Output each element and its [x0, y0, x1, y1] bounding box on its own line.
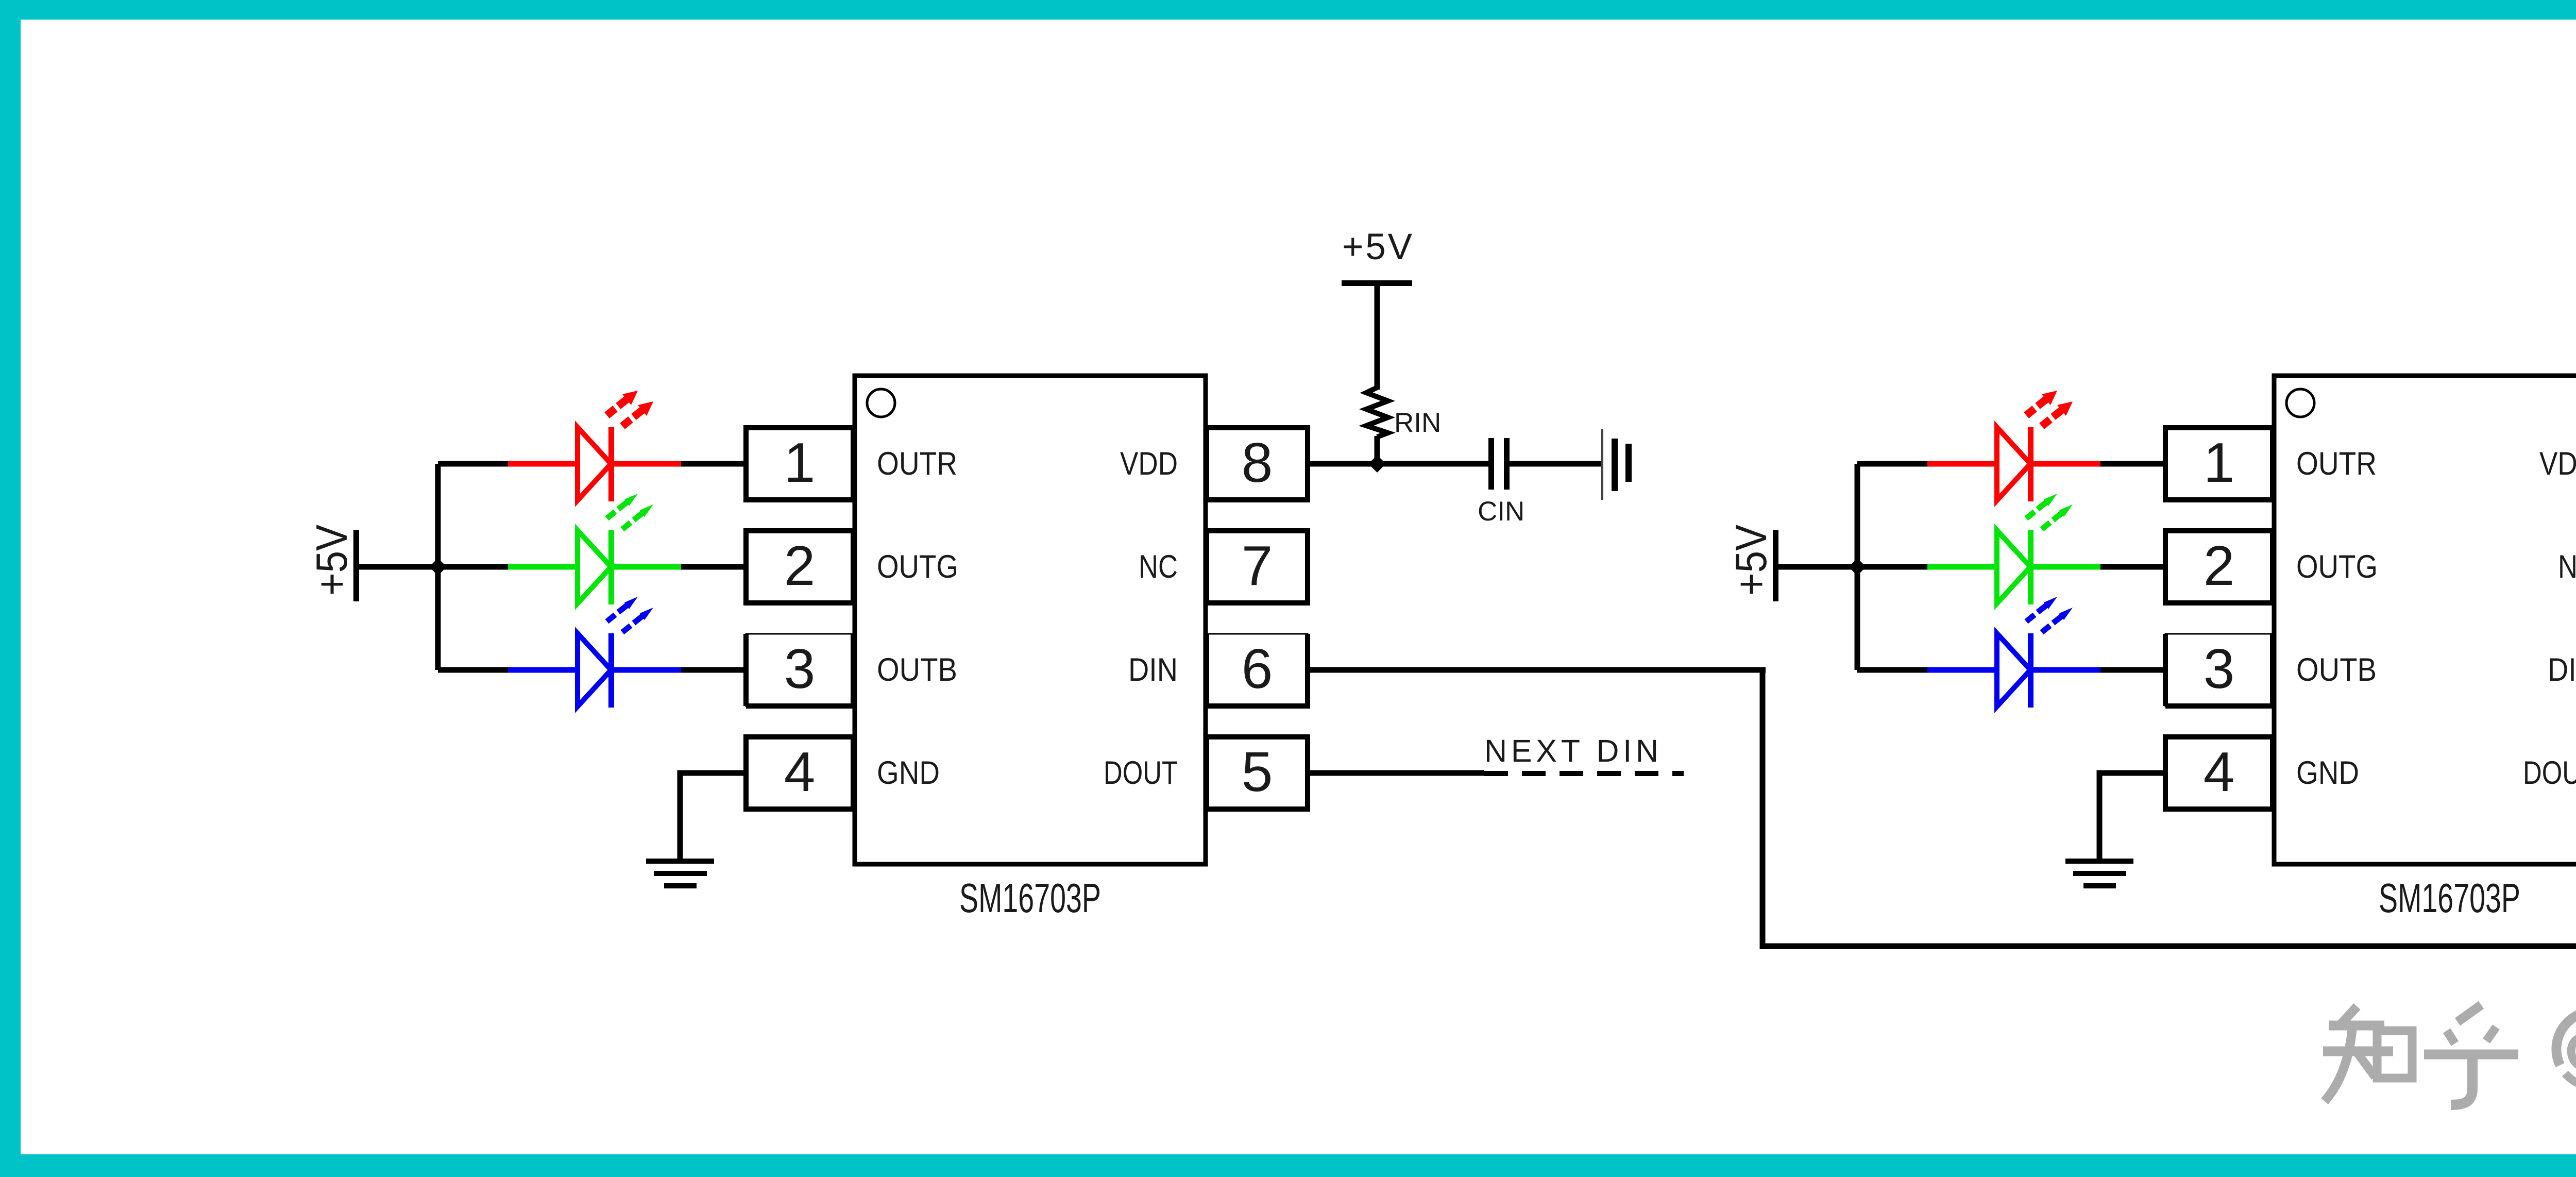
resistor RIN [1366, 388, 1388, 437]
wire anode stub (blue LED) [438, 667, 509, 673]
pin 2 box [2165, 531, 2273, 603]
pin 6 box [1207, 634, 1308, 706]
svg-text:CIN: CIN [1478, 496, 1524, 527]
svg-text:VDD: VDD [2539, 446, 2576, 482]
svg-text:OUTR: OUTR [877, 446, 957, 482]
svg-text:8: 8 [1242, 431, 1273, 494]
svg-text:+5V: +5V [1727, 525, 1776, 596]
svg-text:+5V: +5V [308, 525, 357, 596]
wire pin8 to CIN [1309, 461, 1489, 467]
svg-text:NC: NC [1139, 549, 1178, 585]
svg-text:SM16703P: SM16703P [2379, 875, 2520, 921]
wire bottom run (horizontal) [1760, 944, 2576, 949]
svg-text:GND: GND [2296, 755, 2359, 791]
IC U_U1 SM16703P body [855, 376, 1206, 864]
svg-text:VDD: VDD [1120, 446, 1178, 482]
pin 4 box [746, 737, 853, 809]
svg-text:OUTG: OUTG [2296, 549, 2378, 585]
svg-text:DOUT: DOUT [1104, 755, 1178, 791]
capacitor CIN [1488, 438, 1510, 490]
svg-text:RIN: RIN [1394, 408, 1441, 438]
wire cathode stub (blue LED) [2100, 667, 2167, 673]
wire cathode stub (red LED) [681, 461, 748, 467]
svg-text:DIN: DIN [2548, 652, 2576, 688]
wire anode stub (red LED) [438, 461, 509, 467]
wire +5V to LED anode node [1778, 564, 1860, 570]
svg-text:1: 1 [2204, 431, 2235, 494]
wire anode stub (green LED) [1857, 564, 1928, 570]
pin 7 box [1207, 531, 1308, 603]
watermark 知乎 @玩转嵌入式 [2323, 1004, 2576, 1105]
svg-text:4: 4 [784, 741, 816, 803]
ground (IC GND pin, U1) [646, 859, 714, 888]
wire cathode stub (red LED) [2100, 461, 2167, 467]
node VDD junction [1368, 455, 1386, 473]
pin 8 box [1207, 428, 1308, 500]
power +5V rail (U2 LED supply) [1727, 525, 1778, 601]
svg-text:2: 2 [784, 534, 816, 597]
power +5V rail (U1 LED supply) [308, 525, 359, 601]
power +5V (VDD supply, U1) [1342, 227, 1413, 286]
wire pin4 to ground [2099, 773, 2167, 861]
pin 4 box [2165, 737, 2273, 809]
wire LED anode bus (vertical) [435, 464, 441, 670]
wire cathode stub (blue LED) [681, 667, 748, 673]
LED D1 red [508, 391, 681, 501]
svg-text:SM16703P: SM16703P [959, 875, 1101, 921]
wire RIN to VDD node [1375, 436, 1380, 464]
wire anode stub (blue LED) [1857, 667, 1928, 673]
wire anode stub (green LED) [438, 564, 509, 570]
svg-text:6: 6 [1242, 637, 1273, 700]
svg-text:+5V: +5V [1342, 227, 1413, 267]
svg-text:4: 4 [2204, 741, 2235, 803]
ground (CIN return, U1) [1601, 429, 1632, 500]
node LED anode junction [429, 558, 447, 576]
svg-text:OUTR: OUTR [2296, 446, 2377, 482]
LED D1 red [1927, 391, 2100, 501]
pin 2 box [746, 531, 853, 603]
pin-1 indicator circle [2286, 389, 2314, 417]
pin 1 box [2165, 428, 2273, 500]
wire +5V to LED anode node [359, 564, 441, 570]
LED D3 blue [508, 597, 681, 708]
wire CIN to ground [1510, 461, 1602, 467]
IC U_U2 SM16703P body [2274, 376, 2576, 864]
svg-text:DOUT: DOUT [2523, 755, 2576, 791]
wire DIN drop (vertical) [1760, 667, 1766, 949]
LED D2 green [1927, 494, 2100, 604]
svg-text:DIN: DIN [1128, 652, 1178, 688]
svg-text:GND: GND [877, 755, 940, 791]
ground (IC GND pin, U2) [2065, 859, 2133, 888]
wire pin4 to ground [680, 773, 748, 861]
wire anode stub (red LED) [1857, 461, 1928, 467]
pin 1 box [746, 428, 853, 500]
wire U1 DOUT (pin5) stub [1309, 770, 1484, 776]
pin 3 box [746, 634, 853, 706]
net NEXT DIN (dashed wire) [1484, 771, 1684, 776]
wire +5V to RIN [1375, 283, 1380, 390]
svg-text:NC: NC [2558, 549, 2576, 585]
svg-text:1: 1 [784, 431, 816, 494]
svg-text:5: 5 [1242, 741, 1273, 803]
pin 3 box [2165, 634, 2273, 706]
node LED anode junction [1849, 558, 1866, 576]
pin-1 indicator circle [867, 389, 895, 417]
wire LED anode bus (vertical) [1855, 464, 1860, 670]
LED D2 green [508, 494, 681, 604]
svg-text:OUTB: OUTB [877, 652, 957, 688]
pin 5 box [1207, 737, 1308, 809]
svg-text:OUTB: OUTB [2296, 652, 2377, 688]
wire cathode stub (green LED) [681, 564, 748, 570]
wire cathode stub (green LED) [2100, 564, 2167, 570]
LED D3 blue [1927, 597, 2100, 708]
svg-text:OUTG: OUTG [877, 549, 958, 585]
svg-text:3: 3 [784, 637, 816, 700]
svg-text:7: 7 [1242, 534, 1273, 597]
svg-text:2: 2 [2204, 534, 2235, 597]
svg-text:3: 3 [2204, 637, 2235, 700]
wire U1 DIN (pin6) horizontal [1309, 667, 1766, 673]
